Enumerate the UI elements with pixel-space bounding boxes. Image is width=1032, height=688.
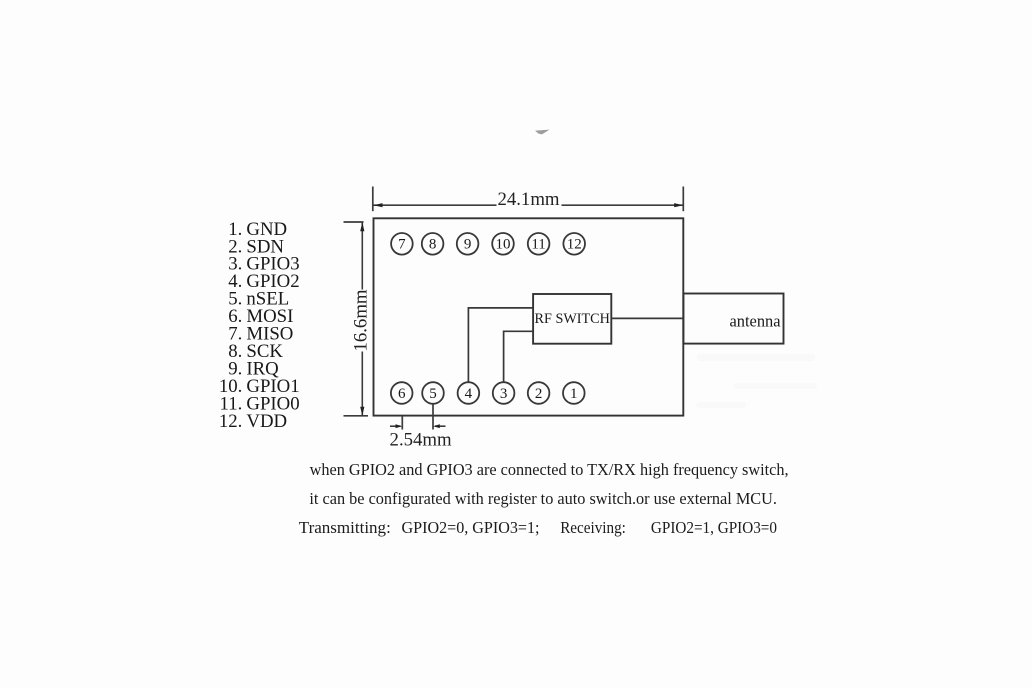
dimension 24.1mm extension line left [372,187,374,212]
pin 7 [391,233,413,255]
dimension 24.1mm line right segment [562,204,683,206]
svg-text:1: 1 [570,386,578,402]
pin 11 [528,233,550,255]
svg-text:it can be configurated with re: it can be configurated with register to … [309,489,777,508]
dimension 16.6mm extension line bottom [344,415,369,417]
pin 5 lead line [432,404,434,430]
svg-text:GPIO2=0, GPIO3=1;: GPIO2=0, GPIO3=1; [402,518,540,537]
svg-text:16.6mm: 16.6mm [351,289,372,351]
dimension 16.6mm arrow top [360,222,364,231]
pin 1 [563,382,585,404]
RF switch box U1 [533,294,611,344]
pin list column [219,219,300,432]
pin 9 [457,233,479,255]
pin 6 [391,382,413,404]
svg-text:Receiving:: Receiving: [560,518,626,537]
dimension 2.54mm arrow right [435,425,446,427]
dimension 24.1mm line left segment [373,204,496,206]
dimension 16.6mm line lower segment [361,352,363,416]
wire RF switch to antenna [611,317,683,319]
dimension 2.54mm arrow left [390,425,401,427]
svg-text:VDD: VDD [246,411,287,432]
dimension 16.6mm line upper segment [361,222,363,289]
svg-text:11: 11 [531,237,545,253]
pin 10 [492,233,514,255]
wire pin4 to RF switch [468,308,533,382]
svg-text:12.: 12. [219,411,242,432]
module outline [374,218,684,415]
svg-text:7: 7 [398,237,406,253]
svg-text:3: 3 [500,386,508,402]
dimension 24.1mm arrow right [674,203,683,207]
svg-text:GPIO2=1, GPIO3=0: GPIO2=1, GPIO3=0 [651,518,777,537]
antenna box [683,294,783,344]
svg-text:Transmitting:: Transmitting: [299,518,391,537]
stray mark (small gray dash near top) [535,130,550,135]
pin 2 [528,382,550,404]
dimension 16.6mm extension line top [344,221,364,223]
svg-text:2: 2 [535,386,543,402]
svg-text:5: 5 [429,386,437,402]
svg-text:2.54mm: 2.54mm [390,430,452,451]
svg-text:RF SWITCH: RF SWITCH [535,311,610,327]
svg-text:4: 4 [465,386,473,402]
pin 5 [422,382,444,404]
svg-text:antenna: antenna [730,311,782,330]
svg-text:when GPIO2 and GPIO3 are conne: when GPIO2 and GPIO3 are connected to TX… [310,460,789,479]
dimension 24.1mm extension line right [682,187,684,212]
svg-text:9: 9 [464,237,472,253]
dimension 2.54mm tick pin6 [401,416,403,430]
pin 8 [422,233,444,255]
svg-text:12: 12 [567,237,582,253]
svg-text:8: 8 [429,237,437,253]
pin 12 [563,233,585,255]
pin 3 [493,382,515,404]
svg-text:6: 6 [398,386,406,402]
dimension 24.1mm arrow left [374,203,383,207]
wire pin3 to RF switch [504,331,533,382]
dimension 16.6mm arrow bottom [360,407,364,416]
svg-text:24.1mm: 24.1mm [497,189,559,210]
svg-text:10: 10 [496,237,511,253]
ghost smudge right of module [696,354,817,408]
pin 4 [458,382,480,404]
